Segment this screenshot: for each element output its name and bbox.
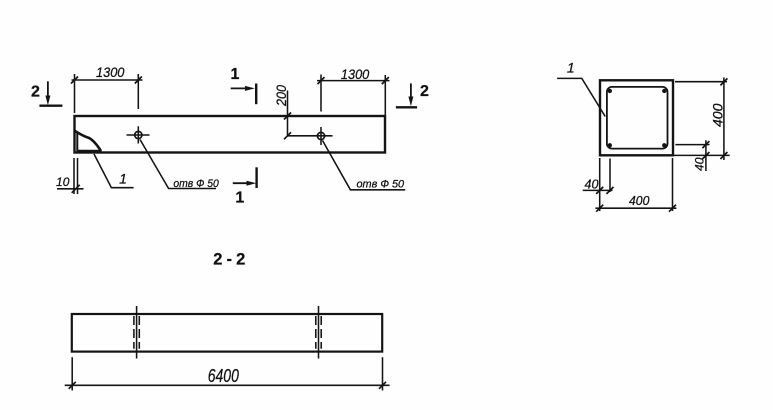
svg-text:1: 1 bbox=[235, 190, 244, 207]
svg-text:2: 2 bbox=[31, 84, 40, 101]
svg-text:10: 10 bbox=[56, 175, 70, 189]
svg-text:2: 2 bbox=[420, 83, 429, 100]
svg-text:1: 1 bbox=[567, 60, 575, 76]
svg-text:400: 400 bbox=[709, 103, 725, 127]
svg-text:1300: 1300 bbox=[341, 66, 370, 82]
svg-text:200: 200 bbox=[274, 85, 289, 107]
svg-text:400: 400 bbox=[629, 194, 649, 208]
svg-text:отв Ф 50: отв Ф 50 bbox=[357, 178, 405, 190]
svg-text:1: 1 bbox=[231, 66, 240, 83]
svg-text:2-2: 2-2 bbox=[213, 250, 245, 268]
svg-text:1: 1 bbox=[119, 171, 127, 187]
svg-text:6400: 6400 bbox=[208, 365, 240, 386]
svg-text:1300: 1300 bbox=[96, 64, 125, 80]
svg-text:40: 40 bbox=[585, 178, 599, 192]
svg-text:отв Ф 50: отв Ф 50 bbox=[173, 178, 219, 190]
svg-text:40: 40 bbox=[693, 157, 707, 171]
